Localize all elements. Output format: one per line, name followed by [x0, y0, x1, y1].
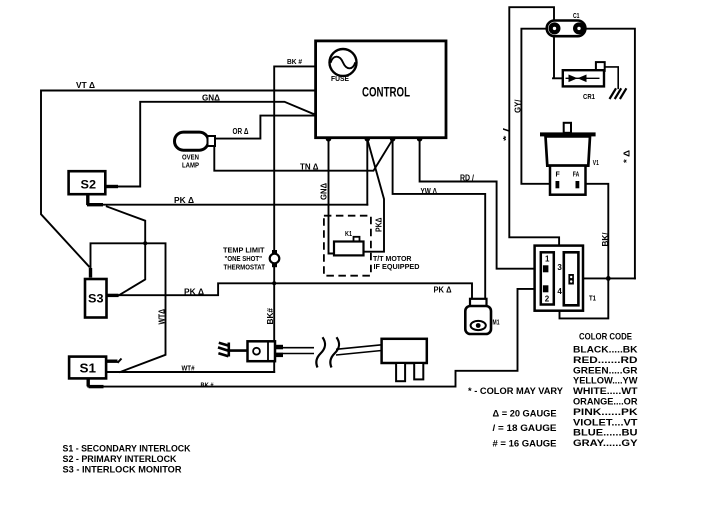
svg-text:* - COLOR MAY VARY: * - COLOR MAY VARY — [468, 386, 563, 396]
relay K1 dashed box — [324, 216, 371, 276]
svg-text:BK/: BK/ — [601, 232, 610, 247]
wire PK diagonal control dot2 to K1 coil right — [364, 139, 385, 252]
switch S2 — [69, 171, 106, 194]
svg-text:GRAY......GY: GRAY......GY — [573, 438, 638, 448]
diode CR1 — [596, 62, 605, 71]
svg-text:4: 4 — [557, 287, 562, 296]
svg-text:"ONE SHOT": "ONE SHOT" — [225, 256, 263, 263]
wire transformer terminal 3 up to C1 left — [509, 7, 559, 261]
svg-text:GNΔ: GNΔ — [320, 183, 329, 200]
svg-text:F: F — [556, 172, 561, 179]
svg-text:CONTROL: CONTROL — [362, 85, 410, 100]
wire WT from S1 to cord block bottom — [106, 371, 274, 373]
power cord cable — [283, 345, 382, 355]
svg-text:Δ = 20 GAUGE: Δ = 20 GAUGE — [493, 409, 557, 419]
relay K1 coil — [354, 237, 360, 242]
node junction PK vertical and S3-top wire — [143, 241, 147, 245]
svg-text:PK Δ: PK Δ — [184, 288, 204, 297]
svg-text:LAMP: LAMP — [182, 161, 199, 170]
wire PK from S3 right to fan motor — [107, 283, 473, 299]
power cord block — [248, 341, 276, 361]
wire YW from control dot3 to fan motor — [393, 139, 486, 299]
fan motor M1 — [470, 299, 487, 315]
magnetron pin FA — [576, 181, 580, 188]
svg-text:FUSE: FUSE — [331, 74, 349, 83]
svg-text:PK Δ: PK Δ — [434, 285, 452, 294]
svg-text:THERMOSTAT: THERMOSTAT — [224, 265, 266, 272]
svg-text:IF EQUIPPED: IF EQUIPPED — [374, 264, 420, 271]
wire S3 top up and right to WT vertical — [91, 243, 166, 372]
node dots at control bottom terminals — [143, 136, 610, 285]
svg-text:S2: S2 — [81, 178, 97, 192]
wire from control dot2 down to PK wire — [366, 139, 368, 205]
svg-text:WTΔ: WTΔ — [157, 309, 166, 325]
svg-text:S1: S1 — [80, 361, 97, 376]
pin 2 terminal — [543, 285, 549, 292]
wire RD from control dot4 to transformer terminal 1 — [420, 139, 543, 269]
wire GY C1 left to magnetron F — [521, 29, 556, 184]
svg-text:T/T MOTOR: T/T MOTOR — [373, 256, 412, 263]
svg-text:GNΔ: GNΔ — [202, 94, 220, 103]
svg-text:COLOR CODE: COLOR CODE — [579, 331, 632, 341]
svg-text:* /: * / — [502, 127, 511, 141]
svg-text:YELLOW....YW: YELLOW....YW — [573, 376, 638, 386]
wire VT from control to S3 top via left edge — [41, 91, 316, 267]
svg-text:/ = 18 GAUGE: / = 18 GAUGE — [493, 423, 557, 433]
svg-text:TN Δ: TN Δ — [300, 163, 319, 172]
node junction BK vertical and PK wire — [272, 281, 276, 285]
svg-text:1: 1 — [545, 255, 550, 264]
wire cord block bottom drop — [273, 361, 275, 372]
svg-text:BK#: BK# — [266, 307, 275, 324]
wire C1 right to right-edge vertical down to secondary — [585, 29, 635, 279]
S1 stub hook — [118, 359, 122, 363]
wire BK from S1 bottom to transformer terminal 2 — [88, 289, 543, 387]
svg-text:S3 - INTERLOCK MONITOR: S3 - INTERLOCK MONITOR — [63, 465, 182, 476]
wire C1 left down to diode CR1 — [553, 36, 564, 79]
oven lamp — [175, 132, 209, 150]
magnetron pin F — [556, 181, 560, 188]
svg-text:FA: FA — [573, 172, 580, 179]
power plug — [382, 339, 427, 363]
wire CR1 output to ground — [605, 67, 619, 89]
svg-text:2: 2 — [545, 294, 550, 303]
svg-text:S2 - PRIMARY INTERLOCK: S2 - PRIMARY INTERLOCK — [63, 454, 177, 465]
power cord ground fork — [218, 343, 248, 357]
svg-text:BLACK.....BK: BLACK.....BK — [573, 345, 638, 355]
svg-text:OR Δ: OR Δ — [233, 127, 249, 136]
wire BK top into control — [274, 66, 315, 250]
wire PK from S2 bottom to control dot2 — [88, 204, 368, 206]
svg-text:# = 16 GAUGE: # = 16 GAUGE — [493, 438, 557, 448]
svg-text:YW Δ: YW Δ — [421, 187, 438, 196]
magnetron V1 — [540, 132, 596, 136]
fuse symbol in control — [330, 49, 357, 76]
switch S1 — [69, 357, 106, 379]
transformer T1 — [535, 246, 583, 311]
svg-text:RED.......RD: RED.......RD — [573, 355, 638, 365]
ground symbol — [610, 88, 627, 99]
svg-text:PKΔ: PKΔ — [375, 217, 384, 232]
cable break symbol — [316, 337, 339, 367]
svg-text:BLUE......BU: BLUE......BU — [573, 428, 638, 438]
svg-text:PK Δ: PK Δ — [174, 196, 194, 205]
wire BK thermostat to cord block — [273, 267, 275, 342]
svg-text:K1: K1 — [345, 231, 352, 238]
svg-text:WT#: WT# — [182, 366, 195, 373]
switch S3 — [85, 279, 107, 318]
capacitor C1 — [547, 21, 586, 37]
svg-text:RD /: RD / — [460, 173, 475, 182]
wire GN from control dot1 down to K1 coil — [329, 139, 335, 254]
svg-text:GY/: GY/ — [514, 99, 523, 113]
svg-text:S1 - SECONDARY INTERLOCK: S1 - SECONDARY INTERLOCK — [63, 444, 191, 455]
wire GN from S2 right to control — [105, 102, 315, 187]
wire BK magnetron FA down to transformer terminal 4 — [560, 184, 609, 319]
S1 thick stubs — [88, 361, 117, 386]
svg-text:VIOLET....VT: VIOLET....VT — [573, 417, 638, 427]
control box U1 — [316, 41, 446, 138]
svg-text:V1: V1 — [593, 160, 599, 167]
secondary terminal — [568, 274, 574, 285]
S2 thick stubs — [87, 187, 118, 206]
thermostat TEMP LIMIT — [270, 254, 280, 264]
svg-text:TEMP LIMIT: TEMP LIMIT — [223, 247, 265, 254]
svg-text:S3: S3 — [88, 292, 104, 306]
svg-text:WHITE.....WT: WHITE.....WT — [573, 386, 638, 396]
svg-text:* Δ: * Δ — [623, 150, 632, 163]
svg-text:VT Δ: VT Δ — [76, 81, 95, 90]
wire OR from oven lamp to control — [215, 116, 316, 139]
svg-text:GREEN.....GR: GREEN.....GR — [573, 365, 638, 375]
svg-text:BK #: BK # — [201, 383, 214, 390]
node BK junction at secondary — [606, 276, 611, 281]
svg-text:CR1: CR1 — [583, 94, 595, 101]
svg-text:T1: T1 — [589, 294, 596, 303]
S3 thick stubs — [91, 268, 119, 295]
wire TN from oven lamp bottom to control dot3 diagonal — [214, 140, 392, 171]
svg-text:PINK......PK: PINK......PK — [573, 407, 638, 417]
svg-text:M1: M1 — [493, 320, 500, 327]
svg-text:3: 3 — [557, 263, 562, 272]
wire transformer secondary output — [573, 277, 635, 279]
svg-text:C1: C1 — [573, 13, 580, 20]
svg-text:BK #: BK # — [287, 59, 302, 66]
svg-text:ORANGE....OR: ORANGE....OR — [573, 397, 638, 407]
pin 1 terminal — [543, 265, 549, 272]
wire diagonal S2-PK branch down to S3 right — [107, 207, 145, 296]
